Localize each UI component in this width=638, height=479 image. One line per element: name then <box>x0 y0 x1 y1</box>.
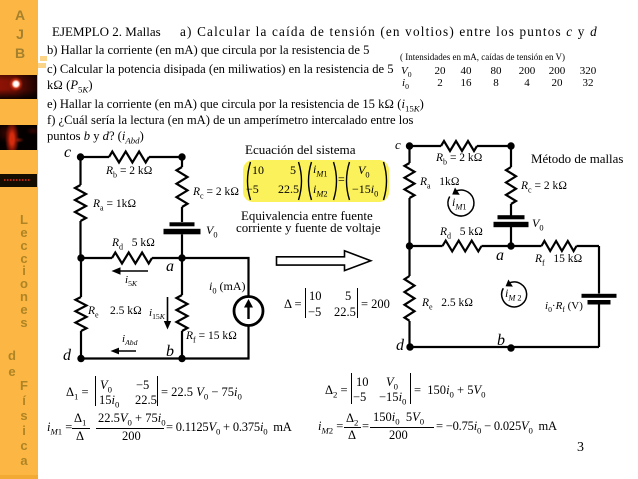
right wire down from topright <box>510 146 512 167</box>
node top-right junction (left circuit) <box>178 153 185 160</box>
label i0 (mA) <box>209 279 246 295</box>
battery V0 left circuit <box>170 222 195 226</box>
node a label right <box>496 247 504 265</box>
resistor Rd right circuit <box>443 241 482 252</box>
battery V0 right circuit <box>498 215 525 219</box>
sidebar background <box>0 0 38 479</box>
label i0Rf right <box>545 300 583 314</box>
table row i0 <box>402 77 409 91</box>
label Rd <box>112 237 155 251</box>
resistor Rb (2k, top) <box>109 152 149 163</box>
item a <box>180 24 598 40</box>
label i15K <box>149 307 165 321</box>
matrix paren 2 open <box>309 162 312 200</box>
node c label right <box>395 137 401 153</box>
node a (left circuit) <box>178 254 185 261</box>
resistor Ra (1k, left) <box>75 185 86 221</box>
resistor Rb right circuit <box>441 141 477 151</box>
label Rb <box>106 165 153 179</box>
arrow i5K <box>118 270 148 272</box>
label iM2 <box>505 286 522 302</box>
resistor Re right circuit <box>405 276 415 321</box>
node c (left circuit) <box>77 153 84 160</box>
heading Metodo de mallas <box>531 152 623 167</box>
item c line 2 <box>47 78 93 95</box>
matrix paren 1 close <box>299 162 302 200</box>
node b label <box>166 343 174 361</box>
resistor Rc right circuit <box>506 167 516 204</box>
label Rd right <box>440 226 483 240</box>
bottom wire <box>410 346 600 348</box>
label Rc <box>193 186 239 200</box>
node a label <box>166 258 174 276</box>
arrow i15K <box>167 297 169 324</box>
left wire down <box>408 146 410 163</box>
wire battery to node a <box>181 234 183 258</box>
table row V0 <box>401 65 412 79</box>
node d (right circuit) <box>406 343 413 350</box>
label V0 <box>206 223 218 239</box>
label Re right <box>422 297 473 311</box>
node d label <box>63 347 71 365</box>
node d label right <box>396 337 404 355</box>
wire battery to a <box>510 227 512 246</box>
node c label <box>64 144 71 162</box>
node top-right junction (right circuit) <box>507 142 514 149</box>
heading Equivalencia <box>241 209 373 224</box>
title <box>52 24 161 40</box>
wire left mid down <box>80 258 82 297</box>
sidebar photo strip 3 <box>0 174 37 187</box>
item f <box>47 113 413 128</box>
label Rf right <box>535 253 582 267</box>
battery i0Rf right circuit <box>582 294 617 298</box>
sidebar equals mark <box>40 56 47 61</box>
yellow highlight box <box>243 160 389 202</box>
item f line 2 <box>47 129 144 146</box>
label Ra right <box>420 176 460 190</box>
node d (left circuit) <box>77 355 84 362</box>
node a (right circuit) <box>507 242 514 249</box>
bottom wire d to b <box>81 357 182 359</box>
middle wire <box>410 245 443 247</box>
matrix paren 3 open <box>347 162 350 200</box>
left wire mid to d <box>408 246 410 276</box>
matrix paren 2 close <box>334 162 337 200</box>
resistor Rf (15k, vertical a-b) <box>181 258 183 295</box>
sidebar AJB logo letters <box>13 6 27 63</box>
resistor Re (2.5k, left) <box>76 297 87 331</box>
sidebar word de <box>5 348 19 379</box>
mesh arrow iM1 <box>448 190 474 216</box>
label Re <box>88 305 99 319</box>
wire top c to topright <box>81 156 110 158</box>
page number <box>577 440 584 456</box>
label Rc right <box>521 180 567 194</box>
sidebar bottom darker strip <box>0 475 38 479</box>
matrix paren 3 close <box>384 162 387 200</box>
right rail down <box>598 246 600 294</box>
label iM1 <box>452 195 467 211</box>
label Ra <box>93 198 136 212</box>
wire right topright down <box>181 157 183 167</box>
sidebar vertical word Fisica <box>17 378 31 468</box>
current source i0 circle <box>234 297 263 326</box>
node b label right <box>497 332 505 350</box>
mesh arrow iM2 <box>502 282 527 307</box>
item e <box>47 97 424 114</box>
heading Ecuacion del sistema <box>245 142 356 158</box>
node b (right circuit) <box>507 344 514 351</box>
wire middle left <box>81 257 112 259</box>
big equivalence arrow <box>277 251 371 271</box>
label Rf <box>186 330 237 344</box>
resistor Ra right circuit <box>405 163 415 198</box>
current source branch wires <box>182 258 249 297</box>
node c (right circuit) <box>406 142 413 149</box>
node b (left circuit) <box>178 355 185 362</box>
resistor Rf right circuit (horizontal) <box>542 241 577 251</box>
top wire <box>410 145 442 147</box>
wire left c down <box>79 157 81 185</box>
item b <box>47 43 369 58</box>
resistor Rd (5k, middle) <box>112 253 152 264</box>
node mid-left junction (left circuit) <box>77 254 84 261</box>
arrow iAbd <box>116 350 136 352</box>
resistor Rc (2k, right) <box>177 167 188 207</box>
label V0 right <box>532 216 544 232</box>
label iAbd <box>122 333 137 347</box>
sidebar photo 2 <box>0 125 37 150</box>
node mid-left junction (right circuit) <box>406 242 413 249</box>
sidebar vertical word Lecciones <box>17 214 31 330</box>
label Rb right <box>436 152 483 166</box>
matrix paren 1 open <box>248 162 251 200</box>
sidebar photo 1 <box>0 75 37 99</box>
table header <box>400 52 565 62</box>
label 2.5k <box>110 305 142 317</box>
label i5K <box>125 274 137 288</box>
item c <box>47 62 394 77</box>
